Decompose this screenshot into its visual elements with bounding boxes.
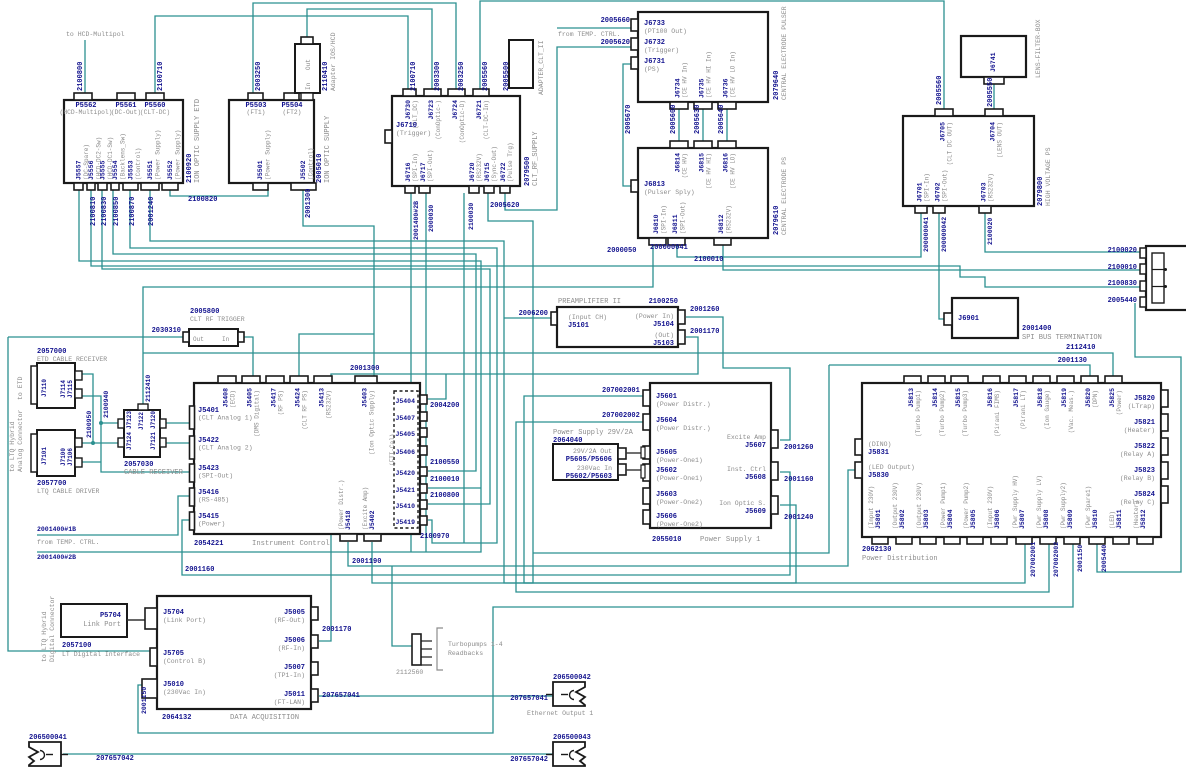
svg-text:(Sync-Out): (Sync-Out) xyxy=(491,146,498,182)
svg-text:J6710: J6710 xyxy=(396,122,417,130)
svg-text:Adapter IOS/HCD: Adapter IOS/HCD xyxy=(330,32,337,91)
svg-text:J5817: J5817 xyxy=(1013,388,1020,408)
svg-text:2001400: 2001400 xyxy=(1022,325,1051,333)
svg-text:207657041: 207657041 xyxy=(510,695,548,703)
svg-text:207002001: 207002001 xyxy=(602,387,640,395)
svg-text:(Relay B): (Relay B) xyxy=(1120,475,1155,482)
svg-text:2100020: 2100020 xyxy=(987,218,994,245)
svg-text:2112560: 2112560 xyxy=(396,669,423,676)
svg-text:(Power Supply): (Power Supply) xyxy=(155,130,162,180)
svg-text:2001240: 2001240 xyxy=(148,197,156,226)
svg-text:(Control): (Control) xyxy=(135,148,142,180)
svg-text:2005660: 2005660 xyxy=(601,17,630,25)
svg-text:DATA ACQUISITION: DATA ACQUISITION xyxy=(230,714,299,722)
svg-text:(Output 230V): (Output 230V) xyxy=(916,482,923,529)
svg-text:P5602/P5603: P5602/P5603 xyxy=(566,473,612,481)
svg-text:2055010: 2055010 xyxy=(652,536,681,544)
svg-text:J6704: J6704 xyxy=(990,122,997,142)
svg-text:Readbacks: Readbacks xyxy=(448,650,483,657)
svg-text:(Heater): (Heater) xyxy=(1133,500,1140,529)
svg-text:to ETD: to ETD xyxy=(17,376,24,400)
svg-text:(Trigger): (Trigger) xyxy=(396,130,431,137)
svg-text:J5501: J5501 xyxy=(257,160,264,180)
svg-text:2100710: 2100710 xyxy=(157,62,165,91)
svg-text:(Input 230V): (Input 230V) xyxy=(868,486,875,529)
svg-text:2100020: 2100020 xyxy=(1108,247,1137,255)
svg-text:CENTRAL ELECTRODE PS: CENTRAL ELECTRODE PS xyxy=(781,157,788,235)
svg-text:J6901: J6901 xyxy=(958,315,979,323)
svg-text:2001400#2B: 2001400#2B xyxy=(413,201,420,240)
svg-text:2005800: 2005800 xyxy=(190,308,219,316)
svg-text:2005440: 2005440 xyxy=(1101,545,1108,572)
svg-text:2054221: 2054221 xyxy=(194,540,223,548)
svg-text:(FTI-Cal): (FTI-Cal) xyxy=(389,434,396,466)
svg-text:J5406: J5406 xyxy=(395,449,415,456)
svg-text:(RS232V): (RS232V) xyxy=(988,173,995,202)
svg-text:SPI BUS TERMINATION: SPI BUS TERMINATION xyxy=(1022,334,1102,342)
svg-text:2100920: 2100920 xyxy=(186,154,194,183)
svg-text:(CE HV LO): (CE HV LO) xyxy=(730,153,737,189)
svg-text:J6733: J6733 xyxy=(644,20,665,28)
svg-text:207657041: 207657041 xyxy=(322,692,360,700)
svg-text:J5418: J5418 xyxy=(345,510,352,530)
svg-text:2005630: 2005630 xyxy=(694,105,702,134)
svg-text:Out: Out xyxy=(305,59,312,70)
svg-text:2112410: 2112410 xyxy=(1066,344,1095,352)
svg-text:J5404: J5404 xyxy=(395,398,415,405)
svg-text:to LTQ Hybrid: to LTQ Hybrid xyxy=(9,421,16,472)
svg-text:(Ion Optic Supply): (Ion Optic Supply) xyxy=(369,390,376,455)
svg-text:(Power-One1): (Power-One1) xyxy=(656,475,703,482)
svg-text:2001130: 2001130 xyxy=(1058,357,1087,365)
svg-text:J6810: J6810 xyxy=(653,214,660,234)
svg-text:2057700: 2057700 xyxy=(37,480,66,488)
svg-text:(CE HV In): (CE HV In) xyxy=(682,62,689,98)
svg-text:J6717: J6717 xyxy=(420,162,427,182)
svg-text:P5605/P5606: P5605/P5606 xyxy=(566,456,612,464)
svg-text:2001150: 2001150 xyxy=(141,687,148,714)
svg-text:2100010: 2100010 xyxy=(694,256,723,264)
svg-text:(ConOptic-D): (ConOptic-D) xyxy=(459,100,466,143)
svg-text:(RS-485): (RS-485) xyxy=(198,497,229,504)
svg-text:J6716: J6716 xyxy=(405,162,412,182)
svg-text:J5010: J5010 xyxy=(163,681,184,689)
svg-text:(Pwr Supply2): (Pwr Supply2) xyxy=(1060,482,1067,529)
svg-text:J5823: J5823 xyxy=(1134,467,1155,475)
svg-text:230Vac In: 230Vac In xyxy=(577,465,612,472)
svg-text:2064040: 2064040 xyxy=(553,437,582,445)
svg-text:J5554: J5554 xyxy=(112,160,119,180)
svg-text:J5557: J5557 xyxy=(76,160,83,180)
svg-text:(Control): (Control) xyxy=(308,148,315,180)
svg-text:2004200: 2004200 xyxy=(430,402,459,410)
svg-text:2001190: 2001190 xyxy=(352,558,381,566)
svg-text:2001300: 2001300 xyxy=(305,189,313,218)
svg-text:J7106: J7106 xyxy=(67,448,74,466)
svg-text:J6722: J6722 xyxy=(500,162,507,182)
svg-text:J5803: J5803 xyxy=(923,509,930,529)
svg-text:Inst. Ctrl: Inst. Ctrl xyxy=(727,466,766,473)
svg-text:J6815: J6815 xyxy=(699,153,706,173)
svg-text:2005640: 2005640 xyxy=(718,105,726,134)
svg-text:(CE HV): (CE HV) xyxy=(682,153,689,178)
svg-text:J5606: J5606 xyxy=(656,513,677,521)
svg-text:2100550: 2100550 xyxy=(430,459,459,467)
svg-text:207002002: 207002002 xyxy=(602,412,640,420)
svg-text:(RS232V): (RS232V) xyxy=(726,205,733,234)
svg-text:2005560: 2005560 xyxy=(482,62,490,91)
svg-text:J5424: J5424 xyxy=(295,388,302,408)
svg-text:J5821: J5821 xyxy=(1134,419,1155,427)
svg-text:2001400#1B: 2001400#1B xyxy=(37,526,76,533)
svg-text:2005550: 2005550 xyxy=(987,78,995,107)
svg-text:(Power Pump1): (Power Pump1) xyxy=(940,482,947,529)
svg-text:(Heater): (Heater) xyxy=(1124,427,1155,434)
svg-text:2001170: 2001170 xyxy=(322,626,351,634)
svg-text:J7122: J7122 xyxy=(138,412,145,430)
svg-text:200000041: 200000041 xyxy=(650,244,688,252)
svg-text:J5814: J5814 xyxy=(932,388,939,408)
svg-text:(Power): (Power) xyxy=(1116,390,1123,415)
svg-text:J5104: J5104 xyxy=(653,321,674,329)
svg-text:(Relay A): (Relay A) xyxy=(1120,451,1155,458)
svg-text:(FT1): (FT1) xyxy=(247,109,266,116)
svg-text:J5705: J5705 xyxy=(163,650,184,658)
svg-text:(DPN): (DPN) xyxy=(1092,390,1099,408)
svg-text:J5603: J5603 xyxy=(656,491,677,499)
svg-text:(Excite Amp): (Excite Amp) xyxy=(362,487,369,530)
svg-text:J5405: J5405 xyxy=(247,388,254,408)
svg-text:J7110: J7110 xyxy=(41,379,48,397)
svg-text:2057100: 2057100 xyxy=(62,642,91,650)
svg-text:J5831: J5831 xyxy=(868,449,889,457)
svg-text:J5816: J5816 xyxy=(987,388,994,408)
svg-text:J5405: J5405 xyxy=(395,431,415,438)
svg-text:2001300: 2001300 xyxy=(350,365,379,373)
svg-text:J5408: J5408 xyxy=(223,388,230,408)
svg-text:(SPI-Out): (SPI-Out) xyxy=(427,150,434,182)
svg-text:(Pulser Sply): (Pulser Sply) xyxy=(644,189,695,196)
svg-text:(Turbo Pump1): (Turbo Pump1) xyxy=(915,390,922,437)
svg-text:2079610: 2079610 xyxy=(773,206,781,235)
svg-text:(ECD): (ECD) xyxy=(230,390,237,408)
svg-text:J6724: J6724 xyxy=(452,100,459,120)
svg-text:J7114: J7114 xyxy=(60,380,67,398)
svg-text:J6705: J6705 xyxy=(940,122,947,142)
svg-text:(CE HV HI): (CE HV HI) xyxy=(706,153,713,189)
svg-text:J5551: J5551 xyxy=(147,160,154,180)
svg-text:J6741: J6741 xyxy=(990,52,997,72)
svg-text:J5819: J5819 xyxy=(1061,388,1068,408)
svg-text:2100800: 2100800 xyxy=(430,492,459,500)
svg-text:(Out): (Out) xyxy=(654,332,674,339)
svg-text:Turbopumps 1-4: Turbopumps 1-4 xyxy=(448,641,503,648)
svg-text:J6730: J6730 xyxy=(405,100,412,120)
svg-text:2112410: 2112410 xyxy=(145,375,152,402)
svg-text:J5607: J5607 xyxy=(745,442,766,450)
svg-text:(Pulse Trg): (Pulse Trg) xyxy=(507,142,514,182)
svg-text:(FT2): (FT2) xyxy=(283,109,302,116)
svg-text:J5403: J5403 xyxy=(362,388,369,408)
svg-text:J6723: J6723 xyxy=(428,100,435,120)
svg-text:J5804: J5804 xyxy=(947,509,954,529)
svg-text:In: In xyxy=(305,82,312,90)
svg-text:J6732: J6732 xyxy=(644,39,665,47)
svg-text:2079800: 2079800 xyxy=(1037,177,1045,206)
svg-text:(LTrap): (LTrap) xyxy=(1128,403,1155,410)
svg-text:(RF-In): (RF-In) xyxy=(278,645,305,652)
svg-text:2100830: 2100830 xyxy=(101,197,109,226)
svg-text:2100030: 2100030 xyxy=(468,203,475,230)
svg-text:J5820: J5820 xyxy=(1085,388,1092,408)
svg-text:(CLT Analog 2): (CLT Analog 2) xyxy=(198,445,253,452)
svg-text:J6816: J6816 xyxy=(723,153,730,173)
svg-text:(SPI-In): (SPI-In) xyxy=(412,153,419,182)
svg-text:CENTRAL ELECTRODE PULSER: CENTRAL ELECTRODE PULSER xyxy=(781,6,788,100)
svg-text:(Trigger): (Trigger) xyxy=(644,47,679,54)
svg-text:P5704: P5704 xyxy=(100,612,121,620)
svg-text:from TEMP. CTRL.: from TEMP. CTRL. xyxy=(37,539,99,546)
svg-text:ETD CABLE RECEIVER: ETD CABLE RECEIVER xyxy=(37,356,107,363)
svg-text:Power Distribution: Power Distribution xyxy=(862,555,938,563)
svg-text:(CLT-DC-In): (CLT-DC-In) xyxy=(483,100,490,140)
svg-text:(230Vac In): (230Vac In) xyxy=(163,689,206,696)
svg-text:J5801: J5801 xyxy=(875,509,882,529)
svg-text:2064132: 2064132 xyxy=(162,714,191,722)
svg-text:J5007: J5007 xyxy=(284,664,305,672)
svg-text:J5407: J5407 xyxy=(395,415,415,422)
svg-text:J5809: J5809 xyxy=(1067,509,1074,529)
svg-text:2000050: 2000050 xyxy=(607,247,636,255)
svg-text:207002001: 207002001 xyxy=(1030,542,1037,577)
svg-text:J7121: J7121 xyxy=(150,432,157,450)
svg-text:J6702: J6702 xyxy=(935,182,942,202)
svg-text:(Input CH): (Input CH) xyxy=(568,314,607,321)
svg-text:J6735: J6735 xyxy=(699,78,706,98)
svg-text:(Power In): (Power In) xyxy=(635,313,674,320)
svg-text:206500043: 206500043 xyxy=(553,734,591,742)
svg-text:2001150: 2001150 xyxy=(1077,545,1084,572)
svg-text:J5825: J5825 xyxy=(1109,388,1116,408)
svg-text:J5011: J5011 xyxy=(284,691,305,699)
svg-text:J7123: J7123 xyxy=(126,411,133,429)
svg-text:2100940: 2100940 xyxy=(103,391,110,418)
svg-text:J6814: J6814 xyxy=(675,153,682,173)
svg-text:Out: Out xyxy=(193,336,204,343)
svg-text:CLT_RF_SUPPLY: CLT_RF_SUPPLY xyxy=(532,131,540,186)
svg-text:Link Port: Link Port xyxy=(83,621,121,629)
svg-text:(Power-One1): (Power-One1) xyxy=(656,457,703,464)
svg-text:2057030: 2057030 xyxy=(124,461,153,469)
svg-text:2100950: 2100950 xyxy=(86,411,93,438)
svg-text:(CLT Analog 1): (CLT Analog 1) xyxy=(198,415,253,422)
svg-text:J5811: J5811 xyxy=(1116,509,1123,529)
svg-text:J5556: J5556 xyxy=(88,160,95,180)
svg-text:(Link Port): (Link Port) xyxy=(163,617,206,624)
svg-text:(Turbo Pump3): (Turbo Pump3) xyxy=(962,390,969,437)
svg-text:2100870: 2100870 xyxy=(129,197,137,226)
svg-text:(Power Pump2): (Power Pump2) xyxy=(963,482,970,529)
svg-text:J5417: J5417 xyxy=(271,388,278,408)
svg-text:J5103: J5103 xyxy=(653,340,674,348)
svg-text:J6721: J6721 xyxy=(476,100,483,120)
svg-text:Power Supply 29V/2A: Power Supply 29V/2A xyxy=(553,429,634,437)
svg-text:J5813: J5813 xyxy=(908,388,915,408)
svg-text:J5830: J5830 xyxy=(868,472,889,480)
svg-text:(Ion Gauge): (Ion Gauge) xyxy=(1044,390,1051,430)
svg-text:(RS232V): (RS232V) xyxy=(476,153,483,182)
svg-text:to HCD-Multipol: to HCD-Multipol xyxy=(66,31,125,38)
svg-text:J7101: J7101 xyxy=(41,447,48,465)
svg-text:(Power Distr.): (Power Distr.) xyxy=(656,401,711,408)
svg-text:(Turbo Pump2): (Turbo Pump2) xyxy=(939,390,946,437)
svg-text:(CLT-DC): (CLT-DC) xyxy=(140,109,170,116)
svg-text:2110410: 2110410 xyxy=(322,62,330,91)
svg-text:2079500: 2079500 xyxy=(524,157,532,186)
svg-text:(LED): (LED) xyxy=(1109,511,1116,529)
svg-text:2100010: 2100010 xyxy=(1108,264,1137,272)
svg-text:2100010: 2100010 xyxy=(430,476,459,484)
svg-text:(Pwr Supply HV): (Pwr Supply HV) xyxy=(1012,475,1019,529)
svg-text:(LED Output): (LED Output) xyxy=(868,464,915,471)
svg-text:2100250: 2100250 xyxy=(649,298,678,306)
svg-text:2005620: 2005620 xyxy=(490,202,519,210)
svg-text:(Power Distr.): (Power Distr.) xyxy=(656,425,711,432)
svg-text:200000042: 200000042 xyxy=(941,217,948,252)
svg-text:(Pirani FIMS): (Pirani FIMS) xyxy=(994,390,1001,437)
svg-text:2001170: 2001170 xyxy=(690,328,719,336)
svg-text:207002002: 207002002 xyxy=(1053,542,1060,577)
svg-text:J5704: J5704 xyxy=(163,609,184,617)
svg-text:2100970: 2100970 xyxy=(420,533,449,541)
svg-text:Digital Connector: Digital Connector xyxy=(49,596,56,662)
svg-text:(Input 230V): (Input 230V) xyxy=(987,486,994,529)
svg-text:(SPI-Out): (SPI-Out) xyxy=(680,202,687,234)
svg-text:from TEMP. CTRL.: from TEMP. CTRL. xyxy=(558,31,620,38)
svg-text:(CLT RF PS): (CLT RF PS) xyxy=(302,390,309,430)
svg-text:J5807: J5807 xyxy=(1019,509,1026,529)
svg-text:2079640: 2079640 xyxy=(773,71,781,100)
svg-text:J6812: J6812 xyxy=(718,214,725,234)
svg-text:J5824: J5824 xyxy=(1134,491,1155,499)
svg-text:J5553: J5553 xyxy=(128,160,135,180)
svg-text:(DC-Out): (DC-Out) xyxy=(111,109,141,116)
svg-text:J7100: J7100 xyxy=(60,448,67,466)
svg-text:J6734: J6734 xyxy=(675,78,682,98)
svg-text:(RF-Out): (RF-Out) xyxy=(274,617,305,624)
svg-text:(SPI-In): (SPI-In) xyxy=(924,173,931,202)
svg-text:2006200: 2006200 xyxy=(519,310,548,318)
svg-text:(TP1-In): (TP1-In) xyxy=(274,672,305,679)
svg-text:In: In xyxy=(222,336,230,343)
svg-text:200000041: 200000041 xyxy=(923,217,930,252)
svg-text:2003250: 2003250 xyxy=(255,62,263,91)
svg-text:J5820: J5820 xyxy=(1134,395,1155,403)
svg-text:(DINO): (DINO) xyxy=(868,441,891,448)
svg-text:(CE HV LO In): (CE HV LO In) xyxy=(730,51,737,98)
svg-text:J6701: J6701 xyxy=(917,182,924,202)
svg-text:J6731: J6731 xyxy=(644,58,665,66)
svg-text:(Output 230V): (Output 230V) xyxy=(892,482,899,529)
svg-text:(Power Supply): (Power Supply) xyxy=(175,130,182,180)
svg-text:(Vac. Meas.): (Vac. Meas.) xyxy=(1068,390,1075,433)
svg-text:(Power Supply): (Power Supply) xyxy=(265,130,272,180)
svg-text:J5419: J5419 xyxy=(395,519,415,526)
svg-text:J5815: J5815 xyxy=(955,388,962,408)
svg-text:(Power): (Power) xyxy=(198,521,225,528)
svg-text:2003300: 2003300 xyxy=(434,62,442,91)
svg-text:J6811: J6811 xyxy=(672,214,679,234)
svg-text:(Pirani LT): (Pirani LT) xyxy=(1020,390,1027,430)
svg-text:Analog Connector: Analog Connector xyxy=(17,409,24,472)
svg-text:J6736: J6736 xyxy=(723,78,730,98)
svg-text:J5609: J5609 xyxy=(745,508,766,516)
svg-text:J6715: J6715 xyxy=(484,162,491,182)
svg-text:J5601: J5601 xyxy=(656,393,677,401)
svg-text:J5608: J5608 xyxy=(745,474,766,482)
svg-text:J5822: J5822 xyxy=(1134,443,1155,451)
svg-text:J5421: J5421 xyxy=(395,487,415,494)
svg-text:2005600: 2005600 xyxy=(670,105,678,134)
svg-text:2100800: 2100800 xyxy=(77,62,85,91)
svg-text:206500041: 206500041 xyxy=(29,734,67,742)
svg-text:J5552: J5552 xyxy=(167,160,174,180)
svg-text:J5812: J5812 xyxy=(1140,509,1147,529)
svg-text:(CE HV HI In): (CE HV HI In) xyxy=(706,51,713,98)
svg-text:J5101: J5101 xyxy=(568,322,589,330)
svg-text:2003250: 2003250 xyxy=(458,62,466,91)
svg-text:2005010: 2005010 xyxy=(316,154,324,183)
svg-text:2001240: 2001240 xyxy=(784,514,813,522)
svg-text:(SPI-Out): (SPI-Out) xyxy=(942,170,949,202)
svg-text:J6720: J6720 xyxy=(469,162,476,182)
svg-text:J5006: J5006 xyxy=(284,637,305,645)
svg-text:(CLT DC OUT): (CLT DC OUT) xyxy=(947,122,954,165)
svg-text:(Power Distr.): (Power Distr.) xyxy=(338,480,345,530)
svg-text:2001160: 2001160 xyxy=(185,566,214,574)
svg-text:2005560: 2005560 xyxy=(936,76,944,105)
svg-text:J5805: J5805 xyxy=(970,509,977,529)
svg-text:2100820: 2100820 xyxy=(188,196,217,204)
svg-text:J5555: J5555 xyxy=(100,160,107,180)
svg-text:(SPI-In): (SPI-In) xyxy=(661,205,668,234)
svg-text:2001400#2B: 2001400#2B xyxy=(37,554,76,561)
svg-text:ION OPTIC SUPPLY ETD: ION OPTIC SUPPLY ETD xyxy=(194,99,202,183)
svg-text:J5502: J5502 xyxy=(300,160,307,180)
svg-text:2000030: 2000030 xyxy=(428,205,435,232)
svg-text:J5806: J5806 xyxy=(994,509,1001,529)
svg-text:(LENS OUT): (LENS OUT) xyxy=(997,122,1004,158)
svg-text:J5410: J5410 xyxy=(395,503,415,510)
svg-text:J5413: J5413 xyxy=(319,388,326,408)
svg-text:HIGH VOLTAGE PS: HIGH VOLTAGE PS xyxy=(1045,147,1052,206)
svg-text:(Pwr Spare1): (Pwr Spare1) xyxy=(1085,486,1092,529)
svg-text:J6813: J6813 xyxy=(644,181,665,189)
svg-text:2100850: 2100850 xyxy=(113,197,121,226)
svg-text:J5402: J5402 xyxy=(369,510,376,530)
svg-text:Instrument Control: Instrument Control xyxy=(252,540,330,548)
svg-text:PREAMPLIFIER II: PREAMPLIFIER II xyxy=(558,298,621,306)
svg-text:206500042: 206500042 xyxy=(553,674,591,682)
svg-text:(RF PS): (RF PS) xyxy=(278,390,285,415)
svg-text:(Backlens_Sw): (Backlens_Sw) xyxy=(120,133,127,180)
svg-text:ADAPTER_CLT_II: ADAPTER_CLT_II xyxy=(538,40,545,95)
svg-text:(Pwr Supply LV): (Pwr Supply LV) xyxy=(1036,475,1043,529)
svg-text:Power Supply 1: Power Supply 1 xyxy=(700,536,760,544)
svg-text:(Power-One2): (Power-One2) xyxy=(656,499,703,506)
svg-text:Ion Optic S.: Ion Optic S. xyxy=(719,500,766,507)
svg-text:Excite Amp: Excite Amp xyxy=(727,434,766,441)
